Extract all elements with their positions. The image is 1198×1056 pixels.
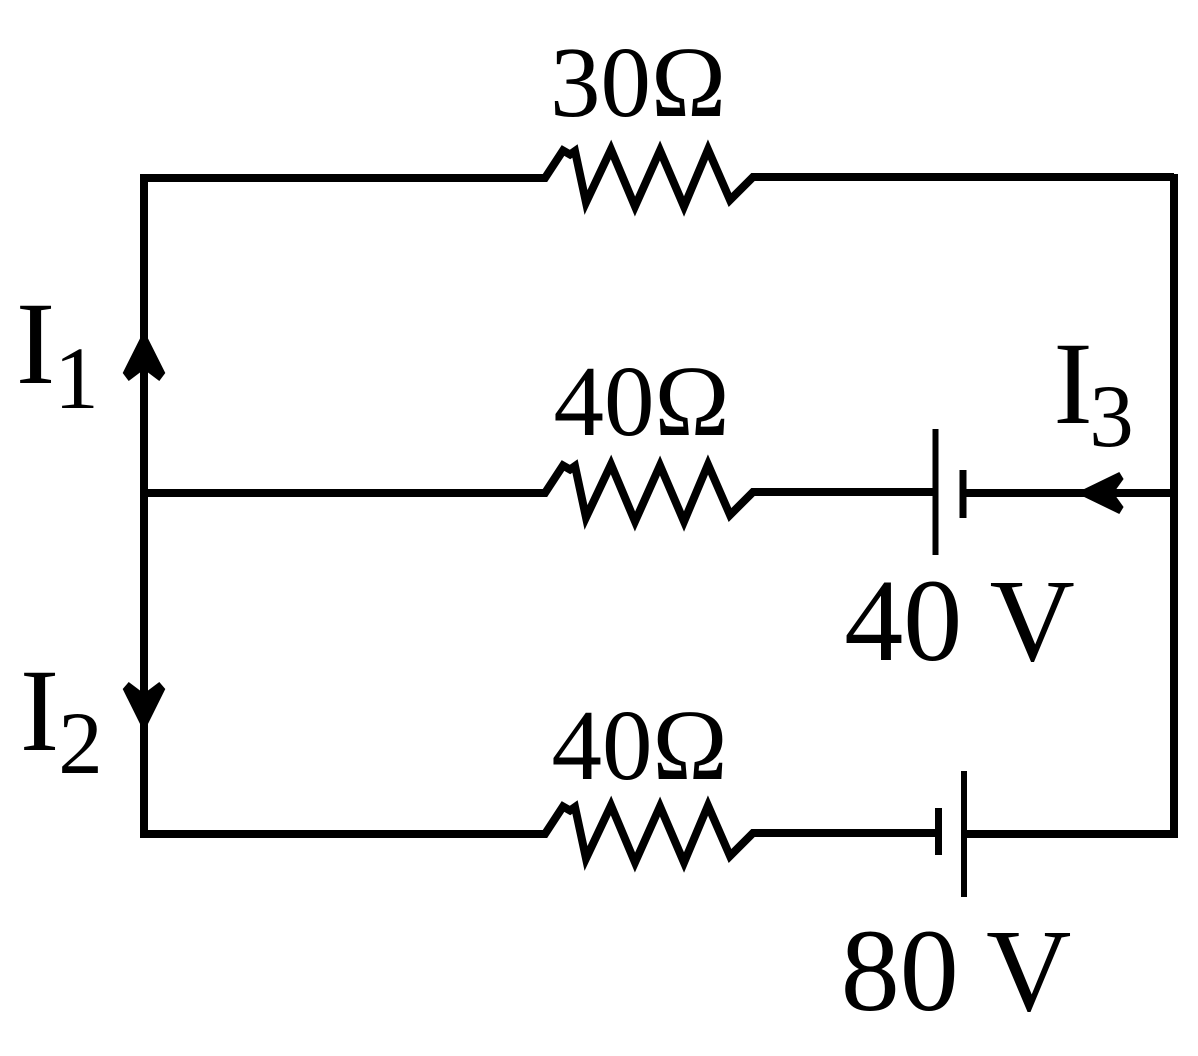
svg-text:30Ω: 30Ω	[550, 26, 726, 138]
svg-text:80 V: 80 V	[841, 905, 1072, 1036]
svg-text:2: 2	[58, 695, 103, 793]
svg-text:40Ω: 40Ω	[553, 345, 729, 457]
svg-text:I: I	[16, 278, 55, 409]
svg-text:1: 1	[54, 330, 99, 428]
svg-text:40 V: 40 V	[844, 555, 1075, 686]
svg-text:I: I	[20, 645, 59, 776]
svg-text:40Ω: 40Ω	[551, 689, 727, 801]
svg-text:I: I	[1053, 318, 1092, 449]
svg-text:3: 3	[1089, 368, 1134, 466]
